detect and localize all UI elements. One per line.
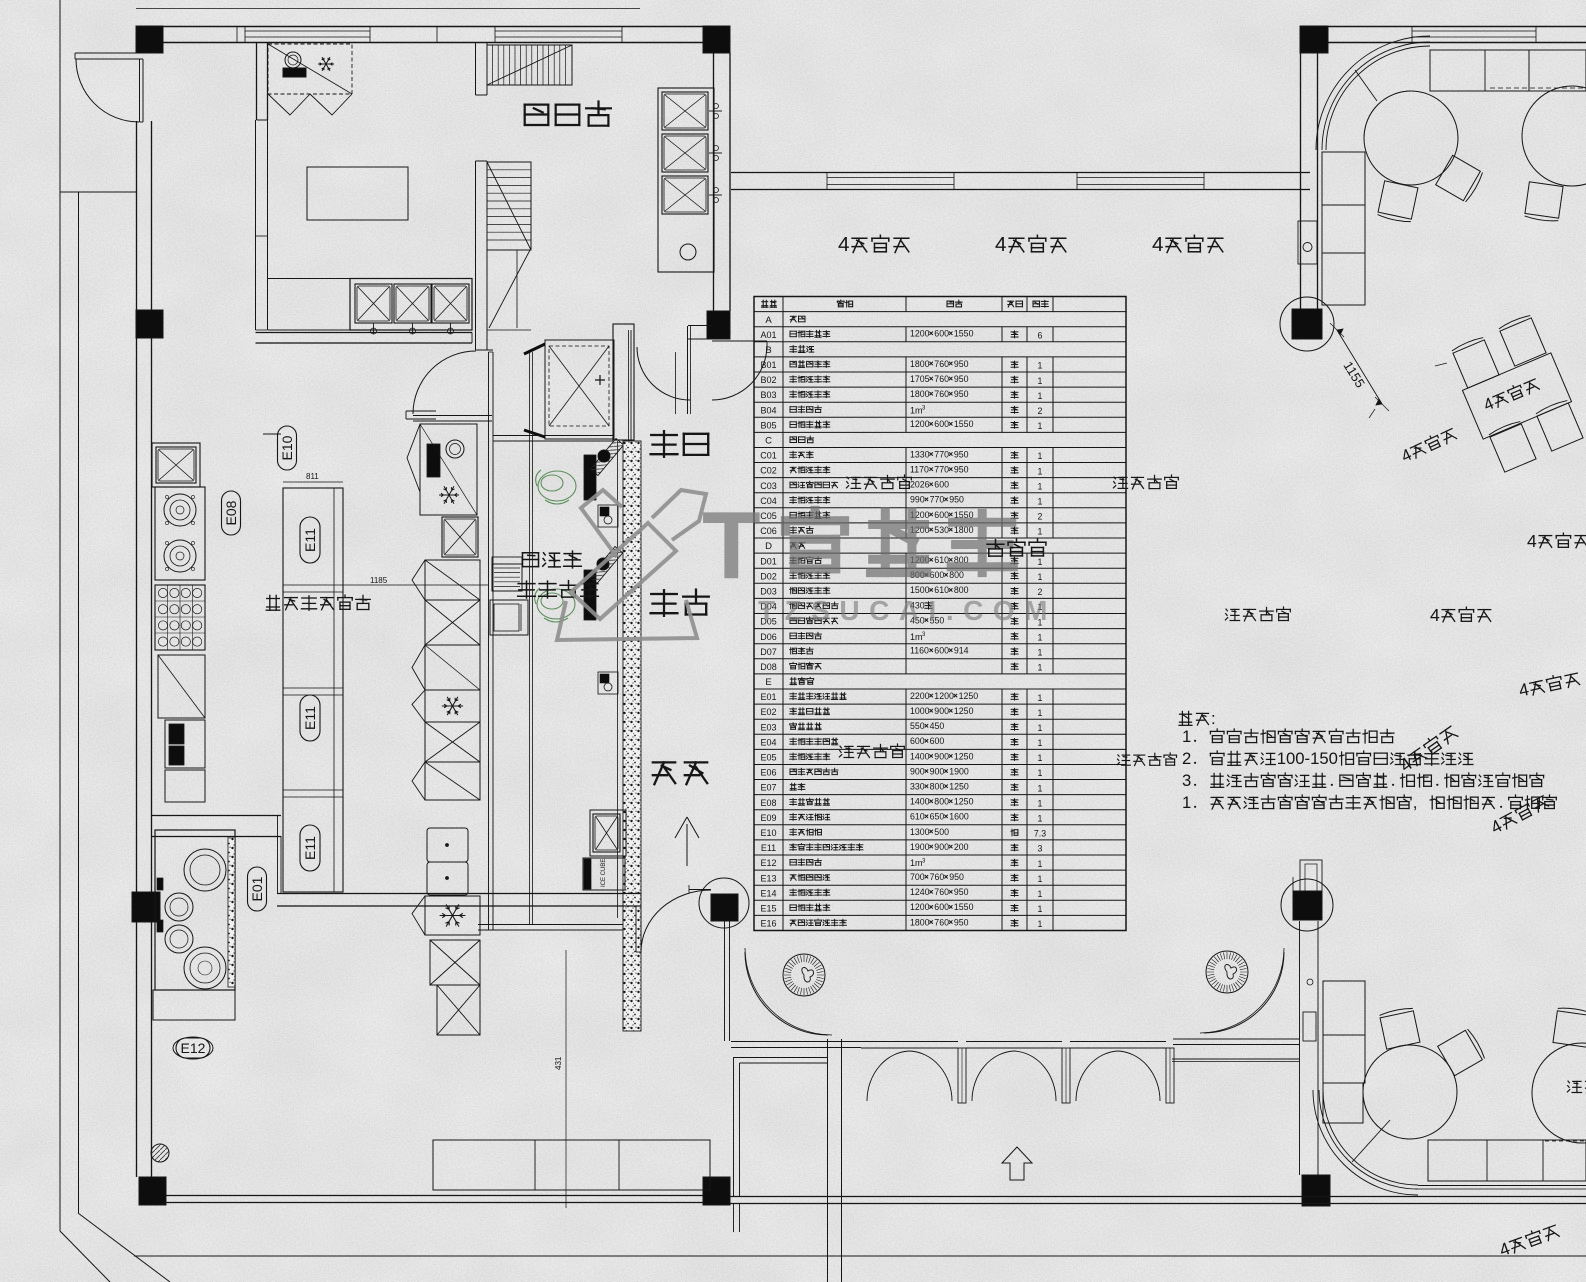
diagonal divider br xyxy=(1352,1120,1390,1162)
svg-text:950: 950 xyxy=(949,872,964,882)
frame bottom horizontal line xyxy=(134,1255,1586,1257)
svg-text:1600: 1600 xyxy=(949,812,969,822)
svg-text:D: D xyxy=(765,541,772,552)
svg-text:600: 600 xyxy=(930,736,945,746)
top-right benches xyxy=(1430,50,1529,91)
kitchen bottom wall B xyxy=(277,893,641,895)
frame diagonal bottom-left xyxy=(78,1213,170,1282)
top wall band (right segment) xyxy=(1328,26,1586,28)
plant1 xyxy=(536,470,576,504)
double door fridge xyxy=(427,828,468,862)
svg-text:E04: E04 xyxy=(760,737,776,747)
svg-text:760: 760 xyxy=(934,887,949,897)
svg-text:E01: E01 xyxy=(760,692,776,702)
top-right booth curve xyxy=(1326,46,1430,150)
door hardware rect xyxy=(1298,221,1317,264)
wok range two burners xyxy=(155,487,205,580)
bottom wall left segment xyxy=(166,1195,703,1197)
watermark logo xyxy=(557,490,706,640)
stair hatch 1 xyxy=(487,45,572,85)
svg-text:E08: E08 xyxy=(760,798,776,808)
svg-text:950: 950 xyxy=(954,389,969,399)
kitchen island xyxy=(283,488,343,892)
speckle inner line xyxy=(617,441,619,918)
servery counter caps xyxy=(493,435,613,437)
svg-text:E12: E12 xyxy=(181,1040,206,1056)
door arc bowls return xyxy=(712,345,767,400)
svg-text:D01: D01 xyxy=(760,556,777,566)
fan symbol left xyxy=(783,954,825,996)
svg-text:760: 760 xyxy=(934,374,949,384)
svg-text:1: 1 xyxy=(1038,557,1043,567)
svg-text:E10: E10 xyxy=(279,435,295,460)
svg-text:1: 1 xyxy=(1038,904,1043,914)
svg-text:1: 1 xyxy=(1038,768,1043,778)
svg-text:1300: 1300 xyxy=(910,827,930,837)
svg-text:E16: E16 xyxy=(760,919,776,929)
bottom bench row xyxy=(1428,1140,1586,1181)
steamer grid unit xyxy=(155,585,205,650)
stub at column xyxy=(689,889,711,891)
frame left inner vertical line xyxy=(78,192,80,1213)
svg-text:A: A xyxy=(765,315,772,326)
stair hatch 2 xyxy=(487,162,531,250)
frame left vertical line xyxy=(59,0,61,1231)
svg-text:4: 4 xyxy=(838,233,849,256)
hatched circle symbol xyxy=(151,1144,169,1162)
svg-text:1550: 1550 xyxy=(954,902,974,912)
svg-text:950: 950 xyxy=(954,887,969,897)
booth curve bottom-right xyxy=(1323,1090,1418,1185)
svg-text:4: 4 xyxy=(1152,233,1163,256)
svg-text:E11: E11 xyxy=(302,836,318,860)
round table 1 xyxy=(1364,91,1458,185)
svg-text:600: 600 xyxy=(934,419,949,429)
svg-text:610: 610 xyxy=(910,812,925,822)
svg-text:1: 1 xyxy=(1038,663,1043,673)
vestibule left wall xyxy=(827,1039,829,1282)
vestibule rail left xyxy=(731,1041,861,1043)
svg-text:600: 600 xyxy=(910,736,925,746)
svg-text:1240: 1240 xyxy=(910,887,930,897)
corridor right line xyxy=(529,352,531,924)
svg-text:950: 950 xyxy=(954,359,969,369)
fan symbol right xyxy=(1206,951,1248,993)
louver shelf xyxy=(492,564,522,591)
servery pillar xyxy=(613,324,634,440)
svg-text:E10: E10 xyxy=(760,828,776,838)
svg-text:800: 800 xyxy=(949,570,964,580)
svg-text:1900: 1900 xyxy=(910,842,930,852)
svg-text:800: 800 xyxy=(930,782,945,792)
column C3 xyxy=(1300,26,1328,53)
svg-text:950: 950 xyxy=(949,495,964,505)
svg-text:1170: 1170 xyxy=(910,465,929,475)
svg-text:E01: E01 xyxy=(249,876,265,901)
south wall door arc xyxy=(413,351,476,414)
circled column bottom-right xyxy=(1281,879,1333,931)
svg-text:2: 2 xyxy=(1038,512,1043,522)
dim line 431 xyxy=(565,950,567,1208)
corridor up arrow xyxy=(675,817,699,866)
pos bar 2 xyxy=(584,570,596,620)
svg-text:1m: 1m xyxy=(910,632,923,642)
kitchen left wall xyxy=(136,121,138,1177)
column bottom-left xyxy=(139,1177,166,1205)
ICE CUBE unit xyxy=(583,858,625,890)
column bottom-right xyxy=(1302,1175,1330,1206)
svg-text:700: 700 xyxy=(910,872,925,882)
svg-text:1550: 1550 xyxy=(954,329,974,339)
pillar door arc xyxy=(637,347,690,400)
svg-text:B01: B01 xyxy=(760,360,776,370)
svg-text:D06: D06 xyxy=(760,632,777,642)
dishwash left wall xyxy=(256,42,258,120)
svg-text:950: 950 xyxy=(954,374,969,384)
round table br right xyxy=(1532,1043,1586,1143)
svg-text:330: 330 xyxy=(910,782,925,792)
svg-text:900: 900 xyxy=(934,842,949,852)
vestibule rail right xyxy=(1173,1038,1300,1040)
svg-text:600: 600 xyxy=(930,570,945,580)
svg-text:1: 1 xyxy=(1038,527,1043,537)
small cabinet xyxy=(165,770,205,802)
kitchen bottom wall A xyxy=(152,815,281,817)
bottom counter boxes xyxy=(433,1140,710,1190)
svg-text:770: 770 xyxy=(930,495,945,505)
svg-text:770: 770 xyxy=(934,449,949,459)
top wall band x136-730 xyxy=(136,26,730,28)
curved vestibule wall right xyxy=(1204,952,1284,1033)
svg-text:900: 900 xyxy=(934,751,949,761)
servery X unit xyxy=(545,340,614,439)
scalloped folding doors xyxy=(861,1041,958,1043)
stair lower triangle xyxy=(489,250,530,328)
big cooking range xyxy=(155,830,235,990)
svg-text:610: 610 xyxy=(934,585,949,595)
svg-text:3: 3 xyxy=(1182,771,1191,790)
svg-text:1: 1 xyxy=(1038,859,1043,869)
svg-text:1: 1 xyxy=(1038,376,1043,386)
dim 811 xyxy=(283,481,343,483)
svg-text:E02: E02 xyxy=(760,707,776,717)
right 4p labels xyxy=(1398,425,1458,466)
paddle 1 xyxy=(590,438,623,475)
entrance arrow xyxy=(1002,1147,1032,1180)
svg-text:650: 650 xyxy=(930,812,945,822)
bottom-right bench boxes xyxy=(1323,981,1365,1035)
frame top line xyxy=(136,8,640,10)
dining table labels top xyxy=(838,233,909,256)
svg-text:1: 1 xyxy=(1038,753,1043,763)
svg-text:1400: 1400 xyxy=(910,751,930,761)
bench front lines xyxy=(1418,1185,1586,1187)
svg-text:1: 1 xyxy=(1038,481,1043,491)
svg-text:1m: 1m xyxy=(910,858,923,868)
prep snowflake xyxy=(318,57,334,71)
svg-text:450: 450 xyxy=(930,721,945,731)
window band 1 xyxy=(245,30,370,32)
prep door triangles xyxy=(268,94,310,115)
svg-text:600: 600 xyxy=(934,510,949,520)
vestibule interior line right xyxy=(1172,1058,1300,1060)
green plant 2 xyxy=(535,588,575,622)
svg-text:B: B xyxy=(765,345,771,356)
svg-text:2200: 2200 xyxy=(910,691,930,701)
circled column mid-right xyxy=(1280,297,1334,351)
svg-text:1800: 1800 xyxy=(910,917,930,927)
monitor box xyxy=(490,600,528,635)
label dishwash room xyxy=(525,102,611,126)
round table br xyxy=(1363,1045,1457,1139)
svg-text:1: 1 xyxy=(1038,497,1043,507)
svg-text:T: T xyxy=(702,492,761,599)
mid column sink xyxy=(442,517,478,557)
corridor sink xyxy=(590,810,626,856)
svg-text:B05: B05 xyxy=(760,420,776,430)
svg-text:C04: C04 xyxy=(760,496,777,506)
svg-text:A01: A01 xyxy=(760,330,776,340)
L-counter vertical wall xyxy=(255,120,257,330)
below-column wall xyxy=(724,921,726,1041)
svg-text:7.3: 7.3 xyxy=(1034,829,1046,839)
big labels xyxy=(651,431,709,457)
svg-text:1185: 1185 xyxy=(370,576,388,585)
right wall below C3 xyxy=(1300,53,1302,310)
stair wall piece 2 xyxy=(475,161,477,350)
svg-text:900: 900 xyxy=(934,706,949,716)
dishwash right wall xyxy=(713,53,715,311)
svg-text:1160: 1160 xyxy=(910,646,929,656)
svg-text:C: C xyxy=(765,436,772,447)
column left wall A xyxy=(136,310,163,338)
svg-text:E: E xyxy=(765,677,771,688)
svg-text:800: 800 xyxy=(934,797,949,807)
svg-text:1250: 1250 xyxy=(954,706,974,716)
frame connector xyxy=(60,191,136,193)
svg-text:950: 950 xyxy=(954,465,969,475)
equipment schedule table xyxy=(754,297,1126,931)
svg-text:,: , xyxy=(1413,793,1418,812)
dim 1155 xyxy=(1337,330,1382,404)
svg-text:1250: 1250 xyxy=(954,797,974,807)
svg-text:990: 990 xyxy=(910,495,925,505)
window band 2 xyxy=(495,30,622,32)
svg-text:1: 1 xyxy=(1038,466,1043,476)
column left wall B xyxy=(132,892,160,922)
corridor left wall xyxy=(488,352,490,930)
partition window band 2 xyxy=(1077,177,1204,179)
svg-text:1: 1 xyxy=(1038,391,1043,401)
labels E08 E10 E01 E12 xyxy=(222,491,241,535)
dishwash right sinks column xyxy=(658,88,714,272)
svg-text:500: 500 xyxy=(934,827,949,837)
labels service counter xyxy=(523,551,582,568)
jog xyxy=(277,815,279,893)
pos bar 1 xyxy=(584,455,596,500)
svg-text:431: 431 xyxy=(554,1056,563,1070)
door column xyxy=(711,894,738,921)
dim 1185 xyxy=(343,584,489,586)
svg-text:1: 1 xyxy=(1038,421,1043,431)
svg-text:900: 900 xyxy=(930,766,945,776)
svg-text:760: 760 xyxy=(930,872,945,882)
svg-text:600: 600 xyxy=(934,646,949,656)
svg-text:ICE CUBE: ICE CUBE xyxy=(601,859,607,887)
curved vestibule wall left xyxy=(745,952,828,1035)
svg-text:800: 800 xyxy=(954,585,969,595)
triple sink counter xyxy=(350,279,472,331)
svg-text:E14: E14 xyxy=(760,888,776,898)
counter band xyxy=(268,278,350,280)
vestibule interior box left xyxy=(733,1057,735,1196)
middle equipment column xyxy=(425,560,480,600)
svg-text:E11: E11 xyxy=(302,706,318,730)
svg-text:1: 1 xyxy=(1038,919,1043,929)
svg-text:530: 530 xyxy=(934,525,949,535)
svg-text:E09: E09 xyxy=(760,813,776,823)
prep black unit xyxy=(283,68,306,77)
svg-text:760: 760 xyxy=(934,389,949,399)
bottom-right wall xyxy=(1299,950,1301,1175)
prep equipment circle xyxy=(285,52,301,68)
door posts xyxy=(958,1048,966,1103)
svg-text:600: 600 xyxy=(934,902,949,912)
svg-text:1900: 1900 xyxy=(949,766,969,776)
svg-text:1: 1 xyxy=(1038,708,1043,718)
dishwash south wall xyxy=(256,332,473,334)
label kitchen prep room xyxy=(266,595,370,610)
stair wall piece 1 xyxy=(475,42,477,95)
svg-text:TZSUCAI.COM: TZSUCAI.COM xyxy=(758,595,1057,626)
svg-text:950: 950 xyxy=(954,449,969,459)
svg-text:1200: 1200 xyxy=(934,691,954,701)
diagonal cabinet xyxy=(158,655,205,718)
svg-text:1250: 1250 xyxy=(959,691,979,701)
svg-text:C03: C03 xyxy=(760,481,777,491)
top-right wall bench boxes xyxy=(1322,152,1365,205)
svg-text:E11: E11 xyxy=(302,528,318,552)
svg-text:B02: B02 xyxy=(760,375,776,385)
paddle 2 xyxy=(589,546,622,583)
svg-text:1: 1 xyxy=(1038,572,1043,582)
svg-text:2: 2 xyxy=(1038,406,1043,416)
svg-text:C01: C01 xyxy=(760,451,777,461)
pos small 2 xyxy=(598,672,618,694)
door to dining xyxy=(641,890,711,952)
svg-text:900: 900 xyxy=(910,766,925,776)
chairs table1 xyxy=(1377,181,1418,224)
svg-text:770: 770 xyxy=(934,465,949,475)
svg-text:E15: E15 xyxy=(760,904,776,914)
svg-text:1: 1 xyxy=(1038,361,1043,371)
diagonal divider xyxy=(1355,70,1377,101)
svg-text:550: 550 xyxy=(910,721,925,731)
rotated square table top-right xyxy=(1451,336,1499,388)
svg-text:C06: C06 xyxy=(760,526,777,536)
svg-text:1000: 1000 xyxy=(910,706,930,716)
svg-text:1200: 1200 xyxy=(910,419,930,429)
svg-text:1250: 1250 xyxy=(949,782,969,792)
svg-text:E08: E08 xyxy=(223,500,239,525)
svg-text:C05: C05 xyxy=(760,511,777,521)
wall ticks xyxy=(436,26,438,42)
svg-text:4: 4 xyxy=(1527,531,1537,551)
svg-text:1800: 1800 xyxy=(910,359,930,369)
svg-text:100-150: 100-150 xyxy=(1277,749,1338,768)
entry door arc xyxy=(75,52,143,54)
speckle counter band xyxy=(623,441,641,1031)
svg-text:B03: B03 xyxy=(760,390,776,400)
column below dishwash wall xyxy=(707,311,730,339)
svg-text::: : xyxy=(1211,709,1216,728)
svg-text:200: 200 xyxy=(954,842,969,852)
partition window band 1 xyxy=(827,177,954,179)
column C2 xyxy=(703,26,730,53)
door jamb right xyxy=(687,326,689,414)
wall drop at 641 xyxy=(640,893,642,952)
svg-text:C02: C02 xyxy=(760,466,777,476)
column bottom-mid xyxy=(703,1177,730,1205)
svg-text:1200: 1200 xyxy=(910,329,930,339)
svg-text:1: 1 xyxy=(1038,693,1043,703)
svg-text:E07: E07 xyxy=(760,783,776,793)
dishwash island table xyxy=(307,167,408,220)
svg-text:D02: D02 xyxy=(760,571,777,581)
booth labels xyxy=(846,475,911,489)
svg-text:D08: D08 xyxy=(760,662,777,672)
dish machine unit top of middle column xyxy=(420,424,477,515)
svg-text:D07: D07 xyxy=(760,647,777,657)
svg-text:760: 760 xyxy=(934,917,949,927)
svg-text:1: 1 xyxy=(1038,783,1043,793)
sink unit top-left kitchen xyxy=(152,443,200,487)
svg-text:1m: 1m xyxy=(910,405,923,415)
svg-text:E06: E06 xyxy=(760,768,776,778)
svg-text:1705: 1705 xyxy=(910,374,930,384)
svg-text:1: 1 xyxy=(1038,889,1043,899)
svg-text:1: 1 xyxy=(1038,814,1043,824)
svg-text:E05: E05 xyxy=(760,753,776,763)
bowls label leader xyxy=(675,352,677,414)
svg-text:1: 1 xyxy=(1038,723,1043,733)
svg-text:1: 1 xyxy=(1182,727,1191,746)
svg-text:811: 811 xyxy=(306,472,319,481)
svg-text:B04: B04 xyxy=(760,405,776,415)
svg-text:1500: 1500 xyxy=(910,585,930,595)
svg-text:E03: E03 xyxy=(760,722,776,732)
svg-text:1: 1 xyxy=(1038,874,1043,884)
svg-text:950: 950 xyxy=(954,917,969,927)
column C1 xyxy=(136,26,163,53)
svg-text:4: 4 xyxy=(995,233,1006,256)
svg-text:914: 914 xyxy=(954,646,969,656)
svg-text:1200: 1200 xyxy=(910,902,930,912)
svg-text:1: 1 xyxy=(1038,451,1043,461)
svg-text:1: 1 xyxy=(1038,798,1043,808)
svg-text:1: 1 xyxy=(1038,648,1043,658)
bottom wall right segment xyxy=(730,1196,1586,1198)
svg-text:2: 2 xyxy=(1182,749,1191,768)
svg-text:E13: E13 xyxy=(760,873,776,883)
svg-text:3: 3 xyxy=(1038,844,1043,854)
corridor north wall xyxy=(413,415,492,417)
svg-text:760: 760 xyxy=(934,359,949,369)
fryer black unit xyxy=(165,720,205,768)
svg-text:6: 6 xyxy=(1038,331,1043,341)
prep room dashed box xyxy=(268,44,352,94)
round table 2 xyxy=(1522,86,1586,186)
